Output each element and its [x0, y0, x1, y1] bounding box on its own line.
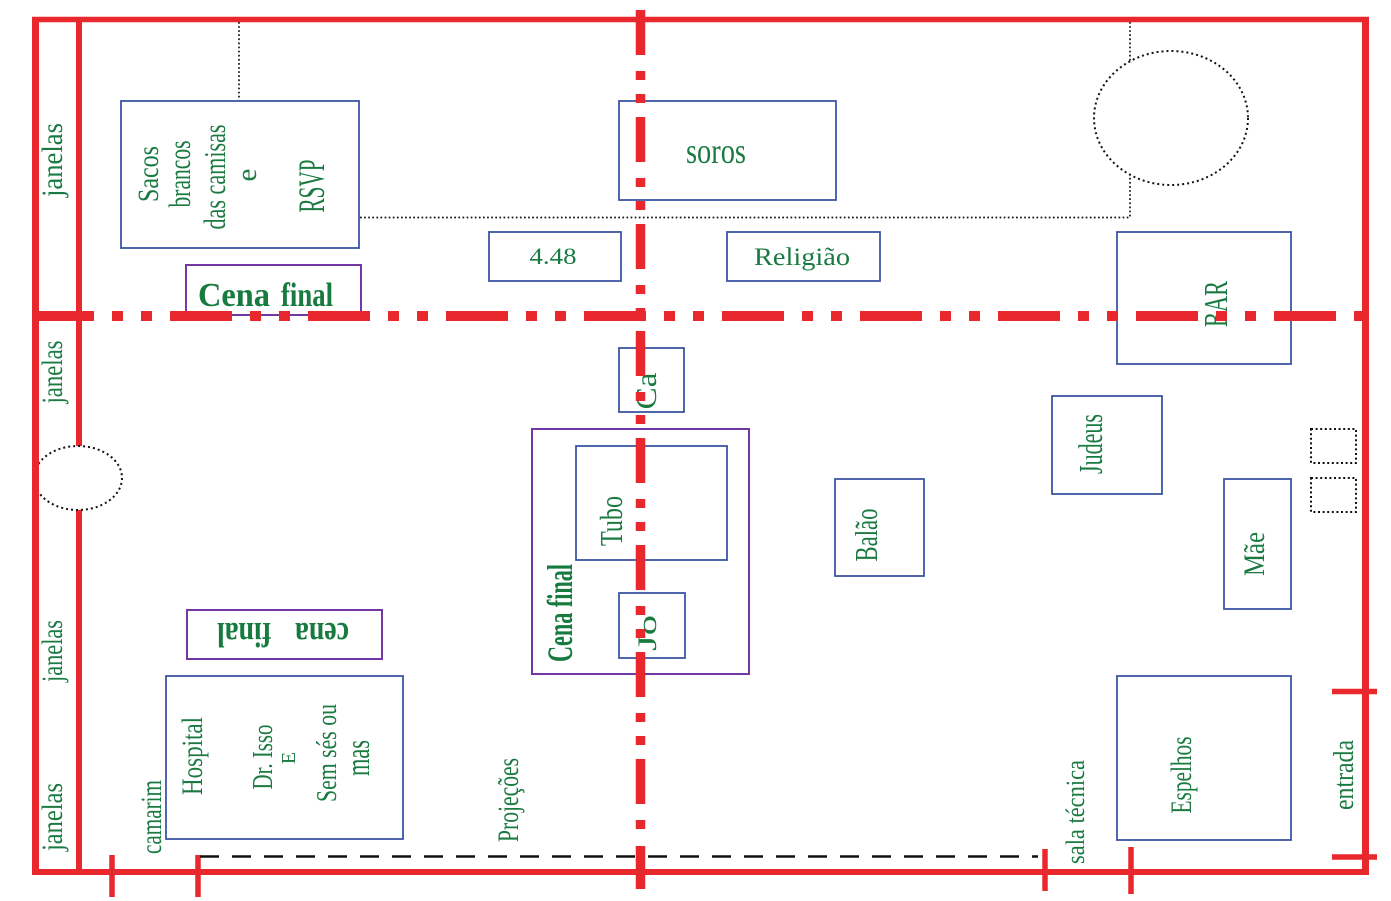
svg-text:entrada: entrada [1329, 740, 1360, 810]
svg-text:Mãe: Mãe [1238, 532, 1271, 576]
purple box cena final inverted [187, 610, 382, 659]
svg-text:janelas: janelas [36, 341, 69, 405]
svg-text:Dr. Isso: Dr. Isso [248, 725, 279, 790]
svg-text:Cena final: Cena final [540, 564, 580, 662]
box Hospital [166, 676, 403, 839]
box Tubo [576, 446, 727, 560]
dotted square 2 [1311, 478, 1356, 512]
box Ca [619, 348, 684, 412]
svg-text:Judeus: Judeus [1073, 414, 1110, 474]
svg-text:janelas: janelas [36, 123, 69, 198]
svg-text:sala técnica: sala técnica [1061, 760, 1090, 864]
box Balao [835, 479, 924, 576]
svg-text:RSVP: RSVP [292, 160, 333, 213]
svg-text:E: E [278, 752, 300, 764]
svg-text:Religião: Religião [754, 244, 850, 271]
svg-text:camarim: camarim [135, 780, 168, 854]
wall top [32, 17, 1369, 23]
svg-text:4.48: 4.48 [530, 244, 577, 269]
wall right [1362, 17, 1369, 875]
red dash-dot vertical line [636, 10, 646, 836]
dashed black line bottom [200, 855, 1038, 858]
svg-text:brancos: brancos [162, 141, 197, 208]
svg-text:e: e [231, 169, 263, 182]
door tick lower right [1332, 854, 1377, 860]
dotted guide line top-left vertical [238, 22, 240, 100]
bottom tick 3 [1042, 849, 1048, 891]
svg-text:janelas: janelas [36, 620, 69, 683]
box Espelhos [1117, 676, 1291, 840]
wall bottom [32, 869, 1369, 875]
svg-text:final: final [281, 277, 333, 314]
box BAR [1117, 232, 1291, 364]
bottom tick 4 [1128, 847, 1134, 894]
svg-text:Espelhos: Espelhos [1165, 737, 1198, 814]
box Religiao [727, 232, 880, 281]
dotted guide line horizontal [360, 217, 1130, 219]
wall outer-left [32, 17, 39, 875]
dotted square 1 [1311, 429, 1356, 463]
wall inner-left line [76, 17, 82, 872]
svg-text:Sem sés ou: Sem sés ou [311, 704, 343, 802]
svg-text:Sacos: Sacos [132, 146, 165, 202]
box soros [619, 101, 836, 200]
svg-text:Hospital: Hospital [176, 717, 209, 795]
purple box Cena final top [186, 265, 361, 315]
box 4.48 [489, 232, 621, 281]
bottom tick 1 [109, 855, 115, 897]
red dash-dot horizontal line [32, 311, 1369, 321]
svg-text:soros: soros [686, 131, 746, 171]
svg-text:mas: mas [340, 740, 377, 776]
box Jo [619, 593, 685, 658]
svg-text:Cena: Cena [198, 277, 270, 314]
svg-text:cena: cena [295, 615, 349, 654]
door tick upper right [1332, 689, 1377, 695]
svg-text:Projeções: Projeções [492, 758, 525, 842]
dotted guide line top-right vertical [1129, 22, 1131, 218]
svg-text:janelas: janelas [36, 783, 69, 852]
svg-text:Ca: Ca [630, 373, 663, 410]
purple box Cena final center [532, 429, 749, 674]
ellipse top-right [1094, 51, 1248, 185]
box Judeus [1052, 396, 1162, 494]
svg-text:Tubo: Tubo [593, 496, 629, 546]
svg-text:Balão: Balão [848, 509, 884, 562]
box Mae [1224, 479, 1291, 609]
red vertical line final dash [636, 846, 646, 889]
svg-text:final: final [217, 615, 271, 654]
ellipse left wall [34, 446, 122, 510]
box RSVP [121, 101, 359, 248]
svg-text:das camisas: das camisas [197, 125, 232, 230]
bottom tick 2 [195, 855, 201, 897]
